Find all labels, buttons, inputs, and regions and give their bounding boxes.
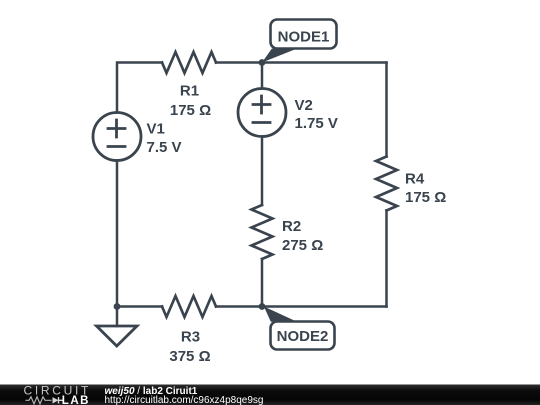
wire top-left segment — [117, 63, 162, 113]
NODE1 callout pointer — [262, 49, 297, 63]
svg-text:275 Ω: 275 Ω — [282, 237, 323, 254]
resistor R4 zigzag — [376, 157, 397, 211]
V2 minus sign — [253, 121, 270, 124]
resistor R2 zigzag — [252, 205, 273, 259]
svg-text:R3: R3 — [181, 329, 200, 346]
node junction dot NODE1 — [259, 59, 266, 66]
wire right upper — [385, 63, 388, 157]
logo resistor squiggle — [26, 397, 52, 404]
resistor R3 zigzag — [162, 296, 216, 317]
resistor R1 zigzag — [162, 52, 216, 73]
svg-text:175 Ω: 175 Ω — [405, 189, 446, 206]
logo diode symbol — [53, 397, 59, 403]
svg-text:V2: V2 — [295, 97, 313, 114]
svg-text:R4: R4 — [405, 171, 425, 188]
ground stub wire — [116, 307, 119, 327]
node junction dot ground — [114, 303, 121, 310]
svg-text:http://circuitlab.com/c96xz4p8: http://circuitlab.com/c96xz4p8qe9sg — [105, 395, 264, 405]
svg-text:NODE2: NODE2 — [277, 328, 329, 345]
NODE2 callout pointer — [264, 307, 297, 322]
wire V2 top stub — [261, 63, 264, 89]
svg-text:375 Ω: 375 Ω — [169, 348, 210, 365]
svg-text:V1: V1 — [147, 121, 165, 138]
wire bottom-left segment — [117, 305, 162, 308]
wire top-right segment — [216, 61, 387, 64]
V2 plus sign — [253, 96, 270, 113]
svg-text:175 Ω: 175 Ω — [170, 102, 211, 119]
svg-text:7.5 V: 7.5 V — [147, 139, 182, 156]
wire R2 to bottom — [261, 259, 264, 307]
svg-text:NODE1: NODE1 — [278, 29, 330, 46]
ground symbol triangle — [97, 326, 138, 346]
V1 minus sign — [108, 145, 125, 148]
node junction dot NODE2 — [259, 303, 266, 310]
wire bottom-right segment — [216, 305, 387, 308]
wire V2 to R2 — [261, 137, 264, 206]
voltage source V1 circle — [93, 113, 141, 161]
NODE1 callout box — [271, 20, 337, 49]
svg-text:R2: R2 — [282, 218, 301, 235]
svg-text:1.75 V: 1.75 V — [295, 115, 338, 132]
wire right lower — [385, 211, 388, 307]
V1 plus sign — [108, 120, 125, 137]
footer black bar — [0, 385, 540, 405]
wire left lower — [116, 161, 119, 307]
NODE2 callout box — [271, 322, 335, 350]
svg-text:R1: R1 — [180, 83, 199, 100]
svg-text:LAB: LAB — [62, 395, 90, 405]
voltage source V2 circle — [238, 89, 286, 137]
